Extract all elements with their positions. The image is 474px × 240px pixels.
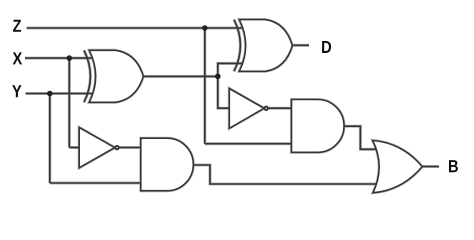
junction on Z wire — [202, 25, 208, 31]
wire XOR1 output to node A — [143, 75, 218, 77]
wire Z to AND2 lower input — [205, 143, 293, 145]
wire X input — [25, 57, 94, 59]
wire node A up to XOR2 lower input — [218, 63, 244, 76]
node B label — [449, 160, 458, 172]
xor gate U2 body — [239, 20, 292, 72]
buffer U4 bubble — [265, 107, 268, 110]
xor gate U2 back arc — [234, 20, 240, 72]
buffer U3 bubble — [115, 146, 118, 149]
node Y label — [12, 85, 21, 97]
and gate U6 (AND2) — [292, 100, 345, 153]
junction on Y wire — [47, 91, 53, 97]
and gate U5 (AND1) — [141, 138, 194, 191]
wire Y input — [26, 93, 95, 95]
node X label — [13, 52, 23, 64]
xor gate U1 back arc — [84, 50, 90, 102]
wire Z vertical drop — [204, 28, 206, 144]
or gate U7 — [373, 141, 423, 193]
wire AND1 output to OR1 lower input — [193, 165, 378, 184]
wire XOR2 output to D — [292, 44, 310, 46]
wire Y vertical drop — [49, 94, 51, 184]
junction on X wire — [67, 55, 73, 61]
buffer U4 triangle — [229, 89, 264, 129]
node D label — [322, 41, 331, 53]
buffer U3 triangle — [79, 128, 115, 168]
wire buffer U4 output to AND2 upper input — [269, 107, 293, 109]
wire X vertical drop — [68, 58, 70, 147]
junction node A on XOR1 output — [215, 74, 221, 80]
wire soft-edge halo pass (duplicates of wires below) — [25, 28, 439, 184]
node Z label — [13, 20, 21, 32]
wire OR1 output to B — [422, 166, 440, 168]
wire node A down to buffer U4 input — [218, 76, 231, 108]
xor gate U1 body — [89, 50, 143, 102]
gate outline soft-edge halo pass (duplicates of gates below) — [79, 20, 422, 193]
wire X to buffer U3 input — [69, 147, 81, 149]
wire buffer U3 output to AND1 upper input — [120, 147, 143, 149]
wire Y to AND1 lower input — [50, 182, 142, 184]
wire AND2 output to OR1 upper input — [344, 126, 378, 149]
wire Z input — [27, 27, 244, 29]
